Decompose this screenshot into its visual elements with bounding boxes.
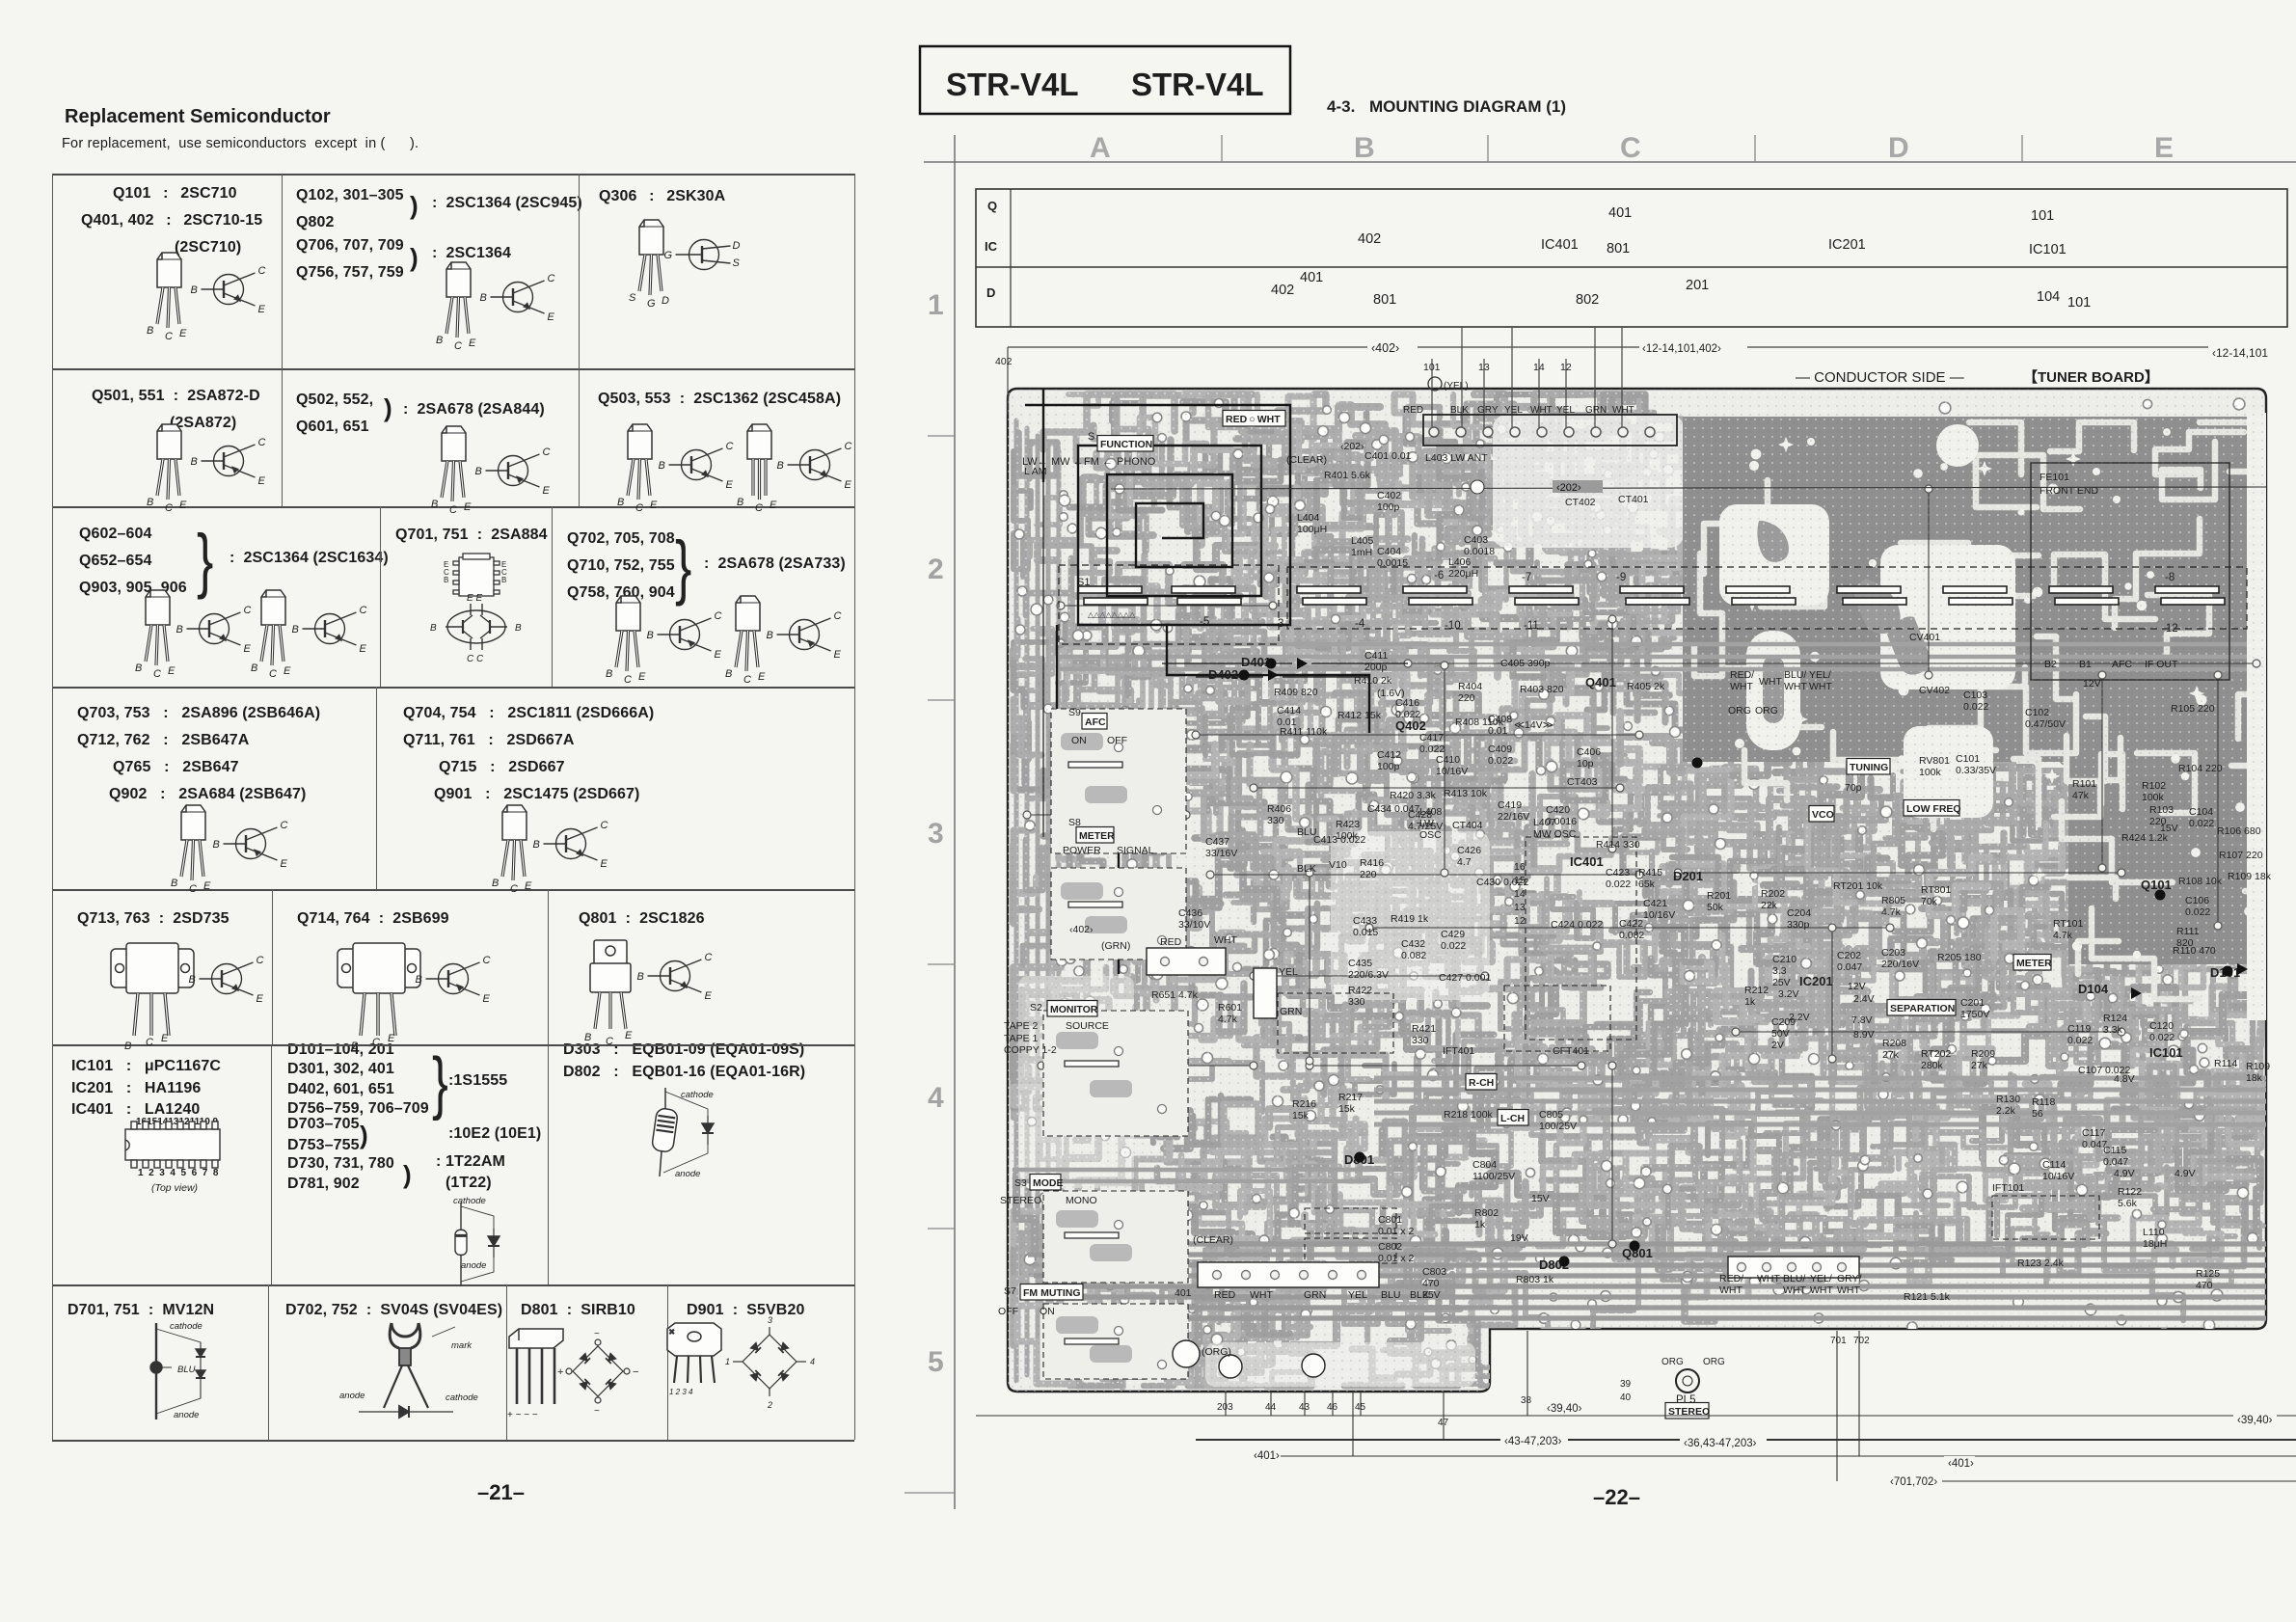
svg-text:R111: R111	[2176, 926, 2200, 937]
svg-text:(GRN): (GRN)	[1101, 940, 1130, 952]
svg-text:15k: 15k	[1338, 1103, 1356, 1115]
transistor package Q306	[629, 220, 669, 310]
svg-text:TAPE 1: TAPE 1	[1004, 1033, 1039, 1044]
svg-text:S9: S9	[1068, 707, 1081, 718]
svg-text:101: 101	[2031, 208, 2054, 224]
svg-text:AFC: AFC	[1085, 716, 1106, 728]
svg-text:C420: C420	[1546, 804, 1570, 816]
svg-text:18k: 18k	[2246, 1072, 2263, 1084]
svg-text:701: 701	[1830, 1336, 1847, 1346]
title box STR-V4L	[920, 46, 1290, 114]
svg-text:C210: C210	[1772, 954, 1796, 965]
svg-text:R103: R103	[2149, 804, 2174, 816]
svg-text:R410 2k: R410 2k	[1354, 675, 1392, 687]
svg-text:801: 801	[1373, 292, 1396, 308]
svg-text:43: 43	[1299, 1402, 1310, 1413]
svg-text:-9: -9	[1616, 572, 1626, 583]
svg-text:0.015: 0.015	[1353, 927, 1378, 938]
svg-text:C203: C203	[1881, 947, 1905, 959]
svg-text:TAPE 2: TAPE 2	[1004, 1020, 1039, 1032]
svg-text:AFC: AFC	[2112, 659, 2132, 670]
svg-text:100k: 100k	[1336, 830, 1359, 842]
svg-text:33/16V: 33/16V	[1205, 848, 1237, 859]
svg-text:‹701,702›: ‹701,702›	[1890, 1476, 1937, 1488]
svg-text:V10: V10	[1329, 859, 1347, 871]
svg-text:220μH: 220μH	[1448, 568, 1478, 580]
svg-text:WHT: WHT	[1837, 1284, 1860, 1296]
svg-text:R106 680: R106 680	[2217, 825, 2261, 837]
svg-text:‹402›: ‹402›	[1371, 341, 1399, 355]
svg-text:1100/25V: 1100/25V	[1472, 1171, 1515, 1182]
svg-text:Q402: Q402	[1395, 718, 1426, 733]
svg-text:FM MUTING: FM MUTING	[1023, 1287, 1081, 1299]
svg-text:ORG: ORG	[1728, 705, 1751, 716]
svg-text:RT801: RT801	[1921, 884, 1951, 896]
svg-text:CV401: CV401	[1909, 632, 1940, 643]
svg-text:R802: R802	[1474, 1207, 1499, 1219]
pnp symbol Q702 group a	[647, 610, 722, 661]
svg-text:100/25V: 100/25V	[1539, 1121, 1577, 1132]
svg-text:CT404: CT404	[1452, 820, 1483, 831]
svg-text:R401 5.6k: R401 5.6k	[1324, 470, 1371, 481]
svg-text:50k: 50k	[1707, 902, 1724, 913]
bridge D901 pictorial	[667, 1315, 815, 1410]
svg-text:C422: C422	[1619, 918, 1643, 930]
svg-text:R125: R125	[2196, 1268, 2220, 1280]
bottom horizontal bus traces	[1028, 1244, 2266, 1318]
pnp symbol Q703 group	[213, 820, 288, 870]
svg-text:S3: S3	[1014, 1177, 1027, 1189]
svg-text:IF OUT: IF OUT	[2145, 659, 2178, 670]
svg-text:COPPY 1-2: COPPY 1-2	[1004, 1044, 1057, 1056]
svg-text:R404: R404	[1458, 681, 1482, 692]
svg-text:C803: C803	[1422, 1266, 1446, 1278]
svg-text:0.01: 0.01	[1488, 725, 1508, 737]
svg-text:–22–: –22–	[1593, 1485, 1640, 1509]
table rules	[52, 174, 854, 176]
svg-text:101: 101	[1423, 362, 1441, 373]
svg-text:YEL: YEL	[1348, 1289, 1367, 1301]
svg-text:3.3: 3.3	[1772, 965, 1787, 977]
svg-text:R403 820: R403 820	[1520, 684, 1564, 695]
svg-text:WHT: WHT	[1250, 1289, 1273, 1301]
svg-text:L-CH: L-CH	[1500, 1113, 1525, 1124]
dip16 package IC101 group	[125, 1122, 220, 1168]
svg-text:R413 10k: R413 10k	[1444, 788, 1488, 799]
axial diode 1T22 pictorial	[455, 1203, 500, 1285]
svg-text:0.33/35V: 0.33/35V	[1956, 765, 1996, 776]
svg-text:RT101: RT101	[2053, 918, 2083, 930]
svg-text:R411 110k: R411 110k	[1280, 726, 1328, 738]
svg-text:L405: L405	[1351, 535, 1374, 547]
npn symbol Q602 group b	[292, 605, 367, 655]
svg-text:220/16V: 220/16V	[1881, 959, 1919, 970]
connector plates	[1147, 948, 1859, 1378]
svg-text:0.022: 0.022	[1963, 701, 1988, 713]
svg-text:45: 45	[1355, 1402, 1366, 1413]
svg-text:IC: IC	[985, 239, 998, 254]
dashed switch outlines	[1043, 709, 2099, 1379]
svg-text:-4: -4	[1355, 618, 1365, 630]
svg-text:D201: D201	[1673, 869, 1703, 883]
svg-text:0.047: 0.047	[2103, 1156, 2128, 1168]
svg-text:R423: R423	[1336, 819, 1360, 830]
svg-text:RED ○ WHT: RED ○ WHT	[1226, 414, 1281, 425]
svg-text:1mH: 1mH	[1351, 547, 1372, 558]
svg-text:S2: S2	[1030, 1002, 1042, 1014]
svg-text:SIGNAL: SIGNAL	[1117, 845, 1154, 856]
svg-text:4.7: 4.7	[1457, 856, 1472, 868]
svg-text:R412 15k: R412 15k	[1337, 710, 1382, 721]
svg-text:15V: 15V	[2160, 823, 2178, 834]
dual transistor symbol Q701	[430, 593, 522, 664]
svg-text:R102: R102	[2142, 780, 2166, 792]
svg-text:104: 104	[2037, 289, 2060, 305]
svg-text:ON: ON	[1040, 1306, 1055, 1317]
svg-text:12V: 12V	[1848, 981, 1866, 992]
svg-text:ON: ON	[1071, 735, 1087, 746]
svg-text:BLK: BLK	[1297, 863, 1316, 875]
svg-text:70k: 70k	[1921, 896, 1938, 907]
svg-text:R415: R415	[1638, 867, 1662, 879]
fet symbol Q306	[664, 240, 741, 270]
svg-text:WHT: WHT	[1784, 681, 1807, 692]
svg-text:5.6k: 5.6k	[2118, 1198, 2138, 1209]
svg-text:RED/: RED/	[1719, 1273, 1743, 1284]
varistor D701 pictorial	[150, 1323, 205, 1419]
svg-text:R420 3.3k: R420 3.3k	[1390, 790, 1437, 801]
svg-text:Q101: Q101	[2141, 878, 2172, 892]
svg-text:-7: -7	[1522, 572, 1531, 583]
svg-text:0.022: 0.022	[2067, 1035, 2093, 1046]
svg-text:16: 16	[1514, 861, 1526, 873]
svg-text:YEL/: YEL/	[1809, 669, 1831, 681]
svg-text:B2: B2	[2044, 659, 2057, 670]
svg-text:WHT: WHT	[1214, 934, 1237, 946]
svg-text:‹202›: ‹202›	[1340, 441, 1364, 452]
svg-text:S7: S7	[1004, 1285, 1016, 1297]
svg-text:BLK: BLK	[1410, 1289, 1429, 1301]
diode dots and marks	[1239, 658, 2249, 1267]
svg-text:27k: 27k	[1882, 1049, 1900, 1061]
svg-text:C202: C202	[1837, 950, 1861, 961]
npn symbol Q704 group	[533, 820, 608, 870]
svg-text:100k: 100k	[1919, 767, 1942, 778]
svg-text:R107 220: R107 220	[2219, 850, 2263, 861]
svg-text:‹401›: ‹401›	[1254, 1450, 1280, 1462]
svg-text:C114: C114	[2042, 1159, 2066, 1171]
svg-text:D104: D104	[2078, 982, 2109, 996]
svg-text:C102: C102	[2025, 707, 2049, 718]
svg-text:B: B	[1354, 132, 1375, 164]
svg-text:C119: C119	[2067, 1023, 2091, 1035]
thick routed jumper wires	[1025, 389, 1408, 974]
svg-text:VCO: VCO	[1812, 809, 1834, 821]
svg-text:C: C	[1620, 132, 1641, 164]
svg-text:C423: C423	[1606, 867, 1630, 879]
svg-text:0.082: 0.082	[1401, 950, 1426, 961]
svg-text:RT201 10k: RT201 10k	[1833, 880, 1883, 892]
svg-text:203: 203	[1217, 1402, 1233, 1413]
svg-text:4.9V: 4.9V	[2114, 1168, 2135, 1179]
svg-text:13: 13	[1478, 362, 1490, 373]
svg-text:‹39,40›: ‹39,40›	[1547, 1403, 1582, 1415]
svg-text:BLU: BLU	[1297, 826, 1316, 838]
svg-text:CT403: CT403	[1567, 776, 1598, 788]
svg-text:R406: R406	[1267, 803, 1291, 815]
svg-text:10/16V: 10/16V	[2042, 1171, 2074, 1182]
svg-text:12: 12	[1560, 362, 1572, 373]
svg-text:R201: R201	[1707, 890, 1731, 902]
svg-text:201: 201	[1686, 278, 1709, 293]
svg-text:402: 402	[1271, 283, 1294, 298]
svg-text:C417: C417	[1419, 732, 1444, 743]
svg-text:0.022: 0.022	[2185, 906, 2210, 918]
svg-text:401: 401	[1300, 270, 1323, 285]
svg-text:C406: C406	[1577, 746, 1601, 758]
svg-text:C103: C103	[1963, 689, 1987, 701]
svg-text:R101: R101	[2072, 778, 2096, 790]
svg-text:L407: L407	[1533, 817, 1556, 828]
pnp symbol Q714	[416, 955, 491, 1005]
svg-text:0.022: 0.022	[2149, 1032, 2174, 1043]
transistor package Q102 group	[436, 262, 476, 352]
svg-text:Q401: Q401	[1585, 675, 1616, 689]
svg-text:C405 390p: C405 390p	[1500, 658, 1551, 669]
svg-text:0.0015: 0.0015	[1377, 557, 1408, 569]
conductor side caption	[1796, 368, 2159, 386]
function switch legend	[1022, 431, 1156, 468]
svg-text:R104 220: R104 220	[2178, 763, 2223, 774]
power package Q713	[111, 943, 194, 1052]
svg-text:702: 702	[1853, 1336, 1870, 1346]
svg-text:C801: C801	[1378, 1214, 1402, 1226]
svg-text:OFF: OFF	[998, 1306, 1018, 1317]
svg-text:CT401: CT401	[1618, 494, 1649, 505]
svg-text:4.9V: 4.9V	[2174, 1168, 2196, 1179]
svg-text:METER: METER	[2016, 958, 2052, 969]
svg-text:E: E	[2154, 132, 2174, 164]
thin interconnect wires	[1023, 485, 2260, 1248]
svg-text:0.047: 0.047	[1837, 961, 1862, 973]
svg-text:44: 44	[1265, 1402, 1277, 1413]
svg-text:R205 180: R205 180	[1937, 952, 1982, 963]
svg-text:WHT: WHT	[1810, 1284, 1833, 1296]
svg-text:R130: R130	[1996, 1094, 2020, 1105]
svg-text:1: 1	[928, 289, 944, 321]
svg-text:R108 10k: R108 10k	[2178, 876, 2223, 887]
transistor package Q704 group	[492, 805, 532, 895]
svg-text:4: 4	[928, 1082, 944, 1114]
svg-text:C802: C802	[1378, 1241, 1402, 1253]
svg-text:27k: 27k	[1971, 1060, 1988, 1071]
svg-text:5: 5	[928, 1346, 944, 1378]
npn symbol Q101	[191, 265, 266, 315]
svg-text:18μH: 18μH	[2143, 1238, 2167, 1250]
svg-text:R124: R124	[2103, 1013, 2127, 1024]
svg-text:4.7k: 4.7k	[2053, 930, 2073, 941]
svg-text:2.2k: 2.2k	[1996, 1105, 2016, 1117]
transistor package Q702 group b	[725, 596, 766, 686]
svg-text:BLU: BLU	[1381, 1289, 1400, 1301]
transistor package Q703 group	[171, 805, 211, 895]
npn symbol Q503 b	[777, 441, 852, 491]
svg-text:13: 13	[1514, 902, 1526, 913]
pnp symbol Q502	[475, 446, 551, 497]
svg-text:POWER: POWER	[1063, 845, 1101, 856]
pnp symbol Q702 group b	[767, 610, 842, 661]
svg-text:WHT: WHT	[1759, 676, 1782, 688]
svg-text:D402: D402	[1208, 667, 1238, 682]
svg-text:47: 47	[1438, 1418, 1449, 1428]
svg-text:OFF: OFF	[1107, 735, 1127, 746]
svg-text:14: 14	[1533, 362, 1545, 373]
svg-text:-6: -6	[1434, 570, 1444, 581]
svg-text:R217: R217	[1338, 1092, 1363, 1103]
svg-text:10p: 10p	[1577, 758, 1594, 770]
svg-text:4.8V: 4.8V	[2114, 1073, 2135, 1085]
svg-text:FM ←: FM ←	[1084, 456, 1113, 468]
svg-text:10/16V: 10/16V	[1643, 909, 1675, 921]
svg-text:R601: R601	[1218, 1002, 1242, 1014]
svg-text:C117: C117	[2082, 1127, 2105, 1139]
svg-text:R110 470: R110 470	[2173, 945, 2216, 957]
svg-text:R109: R109	[2246, 1061, 2270, 1072]
svg-text:IC401: IC401	[1570, 854, 1604, 869]
svg-text:R805: R805	[1881, 895, 1905, 906]
grid ruler and coordinates	[905, 132, 2296, 1509]
svg-text:— CONDUCTOR SIDE —: — CONDUCTOR SIDE —	[1796, 369, 1964, 386]
svg-text:MODE: MODE	[1033, 1177, 1064, 1189]
svg-text:C120: C120	[2149, 1020, 2174, 1032]
svg-text:(ORG): (ORG)	[1202, 1346, 1231, 1358]
npn symbol Q801	[637, 952, 713, 1002]
svg-text:YEL/: YEL/	[1810, 1273, 1832, 1284]
svg-text:C433: C433	[1353, 915, 1377, 927]
svg-text:R123 2.4k: R123 2.4k	[2017, 1257, 2065, 1269]
bridge D801 pictorial	[507, 1329, 638, 1420]
svg-text:470: 470	[1422, 1278, 1440, 1289]
svg-text:15V: 15V	[1531, 1193, 1550, 1204]
svg-text:-12: -12	[2162, 623, 2178, 635]
svg-text:-10: -10	[1445, 620, 1461, 632]
svg-text:‹12-14,101: ‹12-14,101	[2212, 346, 2268, 360]
svg-text:C804: C804	[1472, 1159, 1497, 1171]
svg-text:C436: C436	[1178, 907, 1202, 919]
svg-text:22k: 22k	[1761, 900, 1778, 911]
svg-text:MONITOR: MONITOR	[1050, 1004, 1098, 1015]
svg-text:ORG: ORG	[1661, 1357, 1684, 1367]
svg-text:MONO: MONO	[1066, 1195, 1097, 1206]
transistor package Q702 group a	[606, 596, 646, 686]
svg-text:R414 330: R414 330	[1596, 839, 1640, 851]
svg-text:L403 LW ANT: L403 LW ANT	[1425, 452, 1488, 464]
PCB copper trace texture	[1013, 394, 2264, 1387]
svg-text:R208: R208	[1882, 1038, 1906, 1049]
svg-text:C421: C421	[1643, 898, 1667, 909]
svg-text:A: A	[1090, 132, 1111, 164]
svg-text:B1: B1	[2079, 659, 2092, 670]
svg-text:330p: 330p	[1787, 919, 1810, 931]
svg-text:330: 330	[1348, 996, 1365, 1008]
svg-text:C403: C403	[1464, 534, 1488, 546]
svg-text:RED: RED	[1403, 405, 1423, 416]
svg-text:ORG: ORG	[1755, 705, 1778, 716]
svg-text:R218 100k: R218 100k	[1444, 1109, 1494, 1121]
svg-text:-8: -8	[2165, 572, 2174, 583]
svg-text:R-CH: R-CH	[1469, 1077, 1494, 1089]
svg-text:L110: L110	[2143, 1227, 2165, 1238]
svg-text:1k: 1k	[1474, 1219, 1486, 1230]
svg-text:R202: R202	[1761, 888, 1785, 900]
svg-text:‹202›: ‹202›	[1556, 482, 1581, 494]
line 202	[1111, 480, 2266, 494]
svg-text:C427 0.001: C427 0.001	[1439, 972, 1491, 984]
svg-text:0.022: 0.022	[1488, 755, 1513, 767]
svg-text:STR-V4L: STR-V4L	[946, 67, 1079, 102]
svg-text:101: 101	[2067, 295, 2091, 311]
npn symbol Q713	[189, 955, 264, 1005]
svg-text:33/10V: 33/10V	[1178, 919, 1210, 931]
svg-text:46: 46	[1327, 1402, 1338, 1413]
svg-text:WHT: WHT	[1783, 1284, 1806, 1296]
svg-text:MW OSC: MW OSC	[1533, 828, 1577, 840]
svg-text:56: 56	[2032, 1108, 2043, 1120]
svg-text:R118: R118	[2032, 1096, 2055, 1108]
transistor package Q101/Q401	[147, 253, 187, 342]
component locator table	[976, 189, 2287, 327]
transistor package Q501	[147, 424, 187, 514]
copper pour region top-right	[1683, 413, 2266, 1020]
svg-text:470: 470	[2196, 1280, 2213, 1291]
svg-text:2: 2	[928, 554, 944, 585]
svg-text:GRY/: GRY/	[1837, 1273, 1862, 1284]
svg-text:R803 1k: R803 1k	[1516, 1274, 1554, 1285]
harness wires to board	[995, 328, 2295, 431]
svg-text:R209: R209	[1971, 1048, 1995, 1060]
svg-text:22/16V: 22/16V	[1498, 811, 1529, 823]
svg-text:220/6.3V: 220/6.3V	[1348, 969, 1389, 981]
svg-text:801: 801	[1607, 241, 1630, 257]
svg-text:SOURCE: SOURCE	[1066, 1020, 1109, 1032]
svg-text:S8: S8	[1068, 817, 1081, 828]
svg-text:LOW FREQ: LOW FREQ	[1906, 803, 1961, 815]
svg-text:330: 330	[1267, 815, 1284, 826]
svg-text:GRN: GRN	[1304, 1289, 1326, 1301]
svg-text:C426: C426	[1457, 845, 1481, 856]
svg-text:C106: C106	[2185, 895, 2209, 906]
svg-text:IC201: IC201	[1799, 974, 1833, 988]
svg-text:RED: RED	[1160, 936, 1182, 948]
central horizontal bus traces	[1013, 644, 2266, 1181]
svg-text:IC201: IC201	[1828, 237, 1866, 253]
PCB board outline	[1008, 389, 2266, 1392]
transistor package Q602 group a	[135, 590, 176, 680]
svg-text:‹12-14,101,402›: ‹12-14,101,402›	[1642, 343, 1721, 355]
svg-text:C412: C412	[1377, 749, 1401, 761]
svg-text:100μH: 100μH	[1297, 524, 1327, 535]
svg-text:(YEL): (YEL)	[1444, 381, 1469, 392]
svg-text:(CLEAR): (CLEAR)	[1193, 1234, 1233, 1246]
svg-text:3: 3	[928, 818, 944, 850]
svg-text:≪14V≫: ≪14V≫	[1514, 719, 1553, 731]
svg-text:R416: R416	[1360, 857, 1384, 869]
svg-text:IFT101: IFT101	[1992, 1182, 2024, 1194]
svg-text:802: 802	[1576, 292, 1599, 308]
svg-text:15k: 15k	[1292, 1110, 1310, 1122]
svg-text:3.3k: 3.3k	[2103, 1024, 2123, 1036]
svg-text:RED: RED	[1214, 1289, 1236, 1301]
